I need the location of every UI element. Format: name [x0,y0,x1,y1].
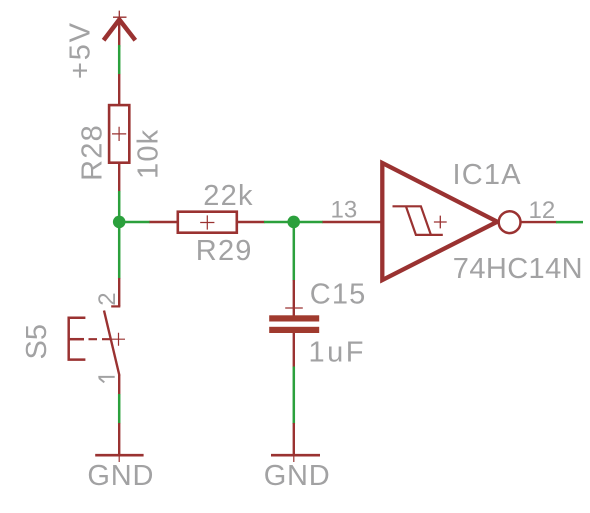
wire [118,394,121,424]
svg-text:74HC14N: 74HC14N [453,253,583,285]
junction node [287,216,300,229]
svg-text:2: 2 [94,292,121,305]
wire [556,221,583,224]
svg-text:GND: GND [87,460,154,492]
svg-text:12: 12 [529,197,556,224]
resistor R28 [109,74,129,192]
ground GND left [95,423,143,462]
inverter IC1A triangle [382,163,497,280]
inverter bubble [499,211,521,233]
capacitor C15 [269,280,319,367]
hysteresis symbol [393,206,443,235]
svg-text:GND: GND [264,460,331,492]
svg-text:1uF: 1uF [309,337,366,369]
junction node [113,216,126,229]
resistor R29 [150,212,265,233]
pin label 1 [98,377,114,383]
wire [118,191,121,279]
supply +5V [104,11,136,47]
svg-text:+5V: +5V [65,21,97,79]
wire [118,45,121,74]
svg-text:R28: R28 [77,124,109,181]
inverter output pin 12 [522,221,557,223]
inverter IC1A pin 13 [323,221,385,223]
wire [293,367,296,425]
wire [293,222,296,281]
wire [264,221,323,224]
wire [119,221,150,224]
svg-text:13: 13 [331,197,358,224]
ground GND right [271,423,320,462]
svg-text:S5: S5 [21,324,53,359]
svg-text:R29: R29 [196,235,253,267]
switch S5 [69,278,125,395]
plus mark [434,216,447,229]
svg-text:IC1A: IC1A [453,159,522,191]
svg-text:22k: 22k [203,180,253,212]
svg-text:C15: C15 [310,278,367,310]
svg-text:10k: 10k [133,129,165,179]
